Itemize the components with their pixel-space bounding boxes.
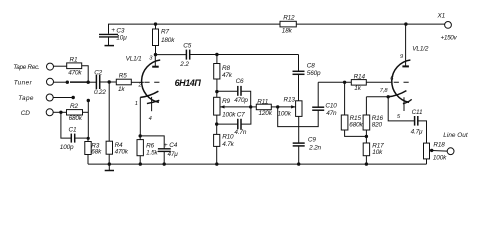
wire R4 drop bbox=[108, 82, 110, 143]
svg-text:680k: 680k bbox=[69, 115, 83, 122]
node R8 R9 C6 bbox=[215, 90, 218, 93]
svg-text:R12: R12 bbox=[283, 14, 295, 21]
svg-text:4.7k: 4.7k bbox=[222, 141, 234, 148]
svg-text:C8: C8 bbox=[307, 63, 315, 70]
wire loop node C to C10 bottom bbox=[278, 107, 319, 127]
svg-text:+: + bbox=[164, 142, 168, 149]
resistor R11 bbox=[251, 98, 278, 117]
svg-text:C5: C5 bbox=[183, 43, 191, 50]
wire Tuner to switch contact A bbox=[54, 81, 68, 83]
svg-text:120k: 120k bbox=[259, 110, 273, 117]
resistor R3 bbox=[85, 137, 102, 164]
svg-text:R2: R2 bbox=[70, 103, 78, 110]
svg-text:2.2: 2.2 bbox=[179, 61, 189, 68]
resistor R17 bbox=[363, 136, 384, 164]
svg-text:C9: C9 bbox=[308, 136, 316, 143]
resistor R2 bbox=[67, 103, 83, 122]
svg-text:C10: C10 bbox=[325, 102, 337, 109]
svg-text:R1: R1 bbox=[70, 57, 78, 64]
node rail R10 bbox=[215, 162, 218, 165]
wire cathode2 down to C11 bbox=[388, 97, 414, 121]
svg-text:18k: 18k bbox=[282, 28, 293, 35]
svg-text:1: 1 bbox=[135, 101, 138, 107]
node switch lower contact bbox=[87, 99, 90, 102]
svg-text:C4: C4 bbox=[169, 142, 177, 149]
svg-text:VL1/1: VL1/1 bbox=[126, 55, 143, 62]
svg-text:100k: 100k bbox=[222, 111, 236, 118]
svg-text:Tuner: Tuner bbox=[14, 79, 33, 86]
svg-text:R9: R9 bbox=[222, 98, 230, 105]
resistor R12 bbox=[280, 14, 296, 34]
svg-text:C1: C1 bbox=[69, 126, 77, 133]
wire R1 right drop to dot B bbox=[82, 66, 89, 82]
node CD line bbox=[59, 111, 62, 114]
node rail R4 bbox=[108, 162, 111, 165]
resistor R13 trimmer bbox=[278, 97, 303, 118]
svg-text:R7: R7 bbox=[161, 29, 169, 36]
wire C10 top to grid node bbox=[318, 81, 351, 83]
wire C5 to C8 corner bbox=[190, 54, 299, 56]
wire C1 right to R3 node bbox=[75, 137, 89, 139]
node rail C9 bbox=[297, 162, 300, 165]
capacitor C11 bbox=[411, 109, 423, 135]
tube VL1/1 grid bbox=[138, 82, 162, 88]
wire B to C2 bbox=[88, 81, 96, 83]
svg-text:470k: 470k bbox=[115, 148, 129, 155]
svg-text:6Н14П: 6Н14П bbox=[175, 78, 202, 88]
svg-text:1k: 1k bbox=[118, 86, 125, 93]
svg-text:470p: 470p bbox=[234, 97, 248, 104]
svg-text:820: 820 bbox=[372, 122, 383, 129]
svg-text:9: 9 bbox=[400, 54, 404, 60]
node R15 R16 R17 bbox=[365, 135, 368, 138]
wire plate node to C5 bbox=[156, 54, 187, 56]
switch bar selector bbox=[70, 81, 88, 83]
capacitor C8 bbox=[293, 55, 322, 101]
svg-text:R5: R5 bbox=[119, 73, 127, 80]
resistor R4 bbox=[106, 141, 129, 164]
capacitor C9 bbox=[293, 136, 322, 164]
resistor R14 bbox=[351, 73, 392, 92]
wire top rail left section bbox=[109, 24, 281, 34]
wire cathode2 to R16 bbox=[366, 96, 388, 98]
capacitor C4 bbox=[158, 142, 178, 164]
node cathode2 bbox=[387, 95, 390, 98]
svg-text:C6: C6 bbox=[236, 78, 244, 85]
resistor R5 bbox=[116, 73, 131, 94]
wire R13 bottom to C9 bbox=[298, 116, 300, 143]
svg-text:VL1/2: VL1/2 bbox=[412, 46, 429, 53]
svg-text:4: 4 bbox=[149, 116, 152, 122]
capacitor C7 path bbox=[217, 107, 251, 136]
svg-text:Tape Rec.: Tape Rec. bbox=[13, 64, 40, 71]
capacitor C3 bbox=[99, 27, 127, 45]
resistor R10 bbox=[214, 124, 235, 164]
svg-text:47μ: 47μ bbox=[168, 151, 179, 158]
tube VL1/2 cathode bbox=[380, 88, 407, 97]
svg-text:10k: 10k bbox=[372, 149, 383, 156]
terminal CD input bbox=[46, 109, 53, 116]
node R11 R13 loop bbox=[276, 105, 279, 108]
svg-text:3: 3 bbox=[149, 55, 153, 61]
capacitor C1 bbox=[60, 126, 77, 151]
resistor R8 bbox=[214, 55, 233, 92]
capacitor C6 path bbox=[217, 78, 251, 107]
terminal Tape Rec input bbox=[47, 63, 54, 70]
svg-text:4.7n: 4.7n bbox=[234, 129, 246, 136]
node wiper C6 C7 R11 bbox=[249, 105, 252, 108]
capacitor C5 bbox=[179, 43, 191, 69]
node plate VL1/1 bbox=[154, 53, 157, 56]
node cathode R6 C4 bbox=[139, 134, 142, 137]
tube VL1/1 envelope bbox=[126, 55, 161, 102]
svg-text:7,8: 7,8 bbox=[380, 88, 389, 94]
svg-text:47k: 47k bbox=[222, 72, 233, 79]
wire Tape stub bbox=[53, 97, 73, 99]
resistor R1 bbox=[67, 57, 83, 77]
capacitor C10 bbox=[312, 82, 337, 117]
node rail C4 bbox=[163, 162, 166, 165]
svg-text:R11: R11 bbox=[257, 98, 268, 105]
svg-text:R6: R6 bbox=[146, 142, 154, 149]
svg-text:1.5k: 1.5k bbox=[146, 149, 158, 156]
svg-text:68k: 68k bbox=[91, 149, 102, 156]
capacitor C2 bbox=[94, 69, 106, 96]
terminal Tuner input bbox=[47, 78, 54, 85]
svg-text:R13: R13 bbox=[284, 97, 296, 104]
terminal X1 bbox=[437, 13, 458, 42]
tube VL1/1 cathode bbox=[135, 91, 159, 136]
svg-text:1k: 1k bbox=[354, 85, 361, 92]
wire R13 wiper bbox=[278, 105, 296, 108]
tube VL1/2 anode bbox=[400, 24, 409, 66]
resistor R9 trimmer bbox=[214, 92, 237, 125]
node rail R17 bbox=[365, 162, 368, 165]
svg-text:470k: 470k bbox=[68, 70, 82, 77]
svg-text:5: 5 bbox=[397, 114, 401, 120]
node A bbox=[66, 81, 69, 84]
tube VL1/2 heater bbox=[397, 97, 412, 120]
wire R2 right to vertical bbox=[83, 111, 89, 113]
resistor R6 bbox=[137, 136, 159, 164]
wire R9 wiper to node bbox=[220, 105, 251, 108]
wire lower contact down to C1/R3 node bbox=[87, 101, 89, 139]
node rail plate2 bbox=[404, 22, 407, 25]
wire C11 to R18 top bbox=[418, 121, 427, 143]
node grid2 C10 R14 R15 bbox=[343, 81, 346, 84]
node B bbox=[87, 81, 90, 84]
wire R18 wiper to Line Out bbox=[430, 149, 448, 152]
wire R5 to grid bbox=[131, 81, 144, 83]
ground below C3 bbox=[105, 45, 115, 47]
svg-text:Line Out: Line Out bbox=[443, 132, 468, 139]
tube VL1/1 heater bbox=[147, 97, 159, 122]
svg-text:R14: R14 bbox=[354, 73, 366, 80]
node tape stub end bbox=[72, 96, 75, 99]
svg-text:R10: R10 bbox=[222, 134, 234, 141]
wire top rail right section bbox=[296, 23, 444, 25]
svg-text:Tape: Tape bbox=[18, 95, 34, 102]
svg-text:2.2n: 2.2n bbox=[308, 145, 321, 152]
node rail R6 bbox=[139, 162, 142, 165]
svg-text:CD: CD bbox=[21, 110, 30, 117]
terminal Tape input bbox=[46, 94, 53, 101]
svg-text:47n: 47n bbox=[326, 110, 337, 117]
svg-text:6: 6 bbox=[390, 76, 394, 82]
tube VL1/2 grid bbox=[390, 76, 410, 82]
svg-text:+: + bbox=[111, 27, 115, 34]
svg-text:100p: 100p bbox=[60, 144, 74, 151]
wire C2 to R5 bbox=[100, 81, 117, 83]
svg-text:180k: 180k bbox=[161, 37, 175, 44]
svg-text:100k: 100k bbox=[433, 155, 447, 162]
svg-text:X1: X1 bbox=[437, 13, 446, 20]
node rail R7 bbox=[154, 22, 157, 25]
svg-text:100k: 100k bbox=[278, 111, 292, 118]
svg-text:C11: C11 bbox=[412, 109, 423, 116]
wire CD dot down to C1 bbox=[61, 112, 71, 138]
ground rail bbox=[88, 163, 427, 165]
wire cathode node to C4 bbox=[140, 136, 164, 149]
ground symbol at rail bbox=[105, 164, 114, 170]
node C2/R4/R5 bbox=[108, 80, 111, 83]
svg-text:10μ: 10μ bbox=[116, 34, 127, 41]
svg-text:C3: C3 bbox=[116, 27, 124, 34]
svg-text:+150v: +150v bbox=[441, 35, 458, 42]
svg-text:C2: C2 bbox=[94, 69, 102, 76]
svg-text:560p: 560p bbox=[307, 70, 321, 77]
terminal Line Out bbox=[443, 132, 468, 155]
wire Tape Rec to R1 bbox=[54, 65, 67, 67]
resistor R16 bbox=[363, 97, 383, 137]
wire CD to R2 bbox=[53, 111, 66, 113]
svg-text:680k: 680k bbox=[349, 122, 363, 129]
resistor R7 bbox=[153, 24, 176, 54]
resistor R18 volume bbox=[424, 142, 448, 165]
resistor R15 bbox=[341, 82, 366, 136]
tube VL1/1 anode bbox=[149, 55, 158, 67]
tube VL1/2 envelope bbox=[392, 46, 429, 103]
node R9 R10 C7 bbox=[215, 122, 218, 125]
svg-text:C7: C7 bbox=[237, 111, 245, 118]
svg-text:R18: R18 bbox=[433, 142, 445, 149]
svg-text:4.7μ: 4.7μ bbox=[411, 129, 423, 136]
svg-text:0.22: 0.22 bbox=[94, 89, 106, 96]
node R8 top bbox=[215, 53, 218, 56]
